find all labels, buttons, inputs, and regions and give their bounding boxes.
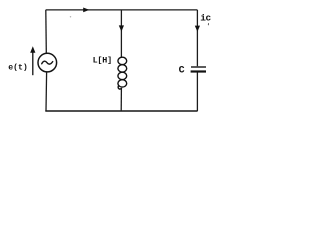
wire bottom horizontal [45, 110, 197, 112]
arrow current ic down [195, 26, 200, 32]
svg-text:c: c [206, 13, 212, 24]
wire inductor bottom lead [120, 88, 122, 111]
inductor L1 coil [118, 57, 127, 89]
capacitor C1 top plate [191, 66, 206, 68]
wire top horizontal [46, 9, 198, 11]
svg-text:L[H]: L[H] [93, 55, 112, 65]
speck on top wire [70, 16, 71, 17]
capacitor C1 bottom plate [191, 70, 206, 72]
wire right vertical top lead [196, 10, 198, 66]
arrow e(t) polarity up [32, 49, 34, 75]
source U1 circle [38, 53, 57, 72]
arrow current down into inductor [119, 25, 124, 31]
wire below source [45, 72, 48, 111]
speck below c [207, 23, 210, 25]
svg-text:e(t): e(t) [8, 63, 28, 73]
wire inductor top lead [120, 10, 122, 57]
wire left vertical [45, 10, 48, 53]
arrow current right on top wire [83, 8, 89, 13]
source sine symbol [42, 61, 53, 64]
svg-text:C: C [179, 66, 185, 77]
wire capacitor bottom lead [196, 73, 198, 112]
